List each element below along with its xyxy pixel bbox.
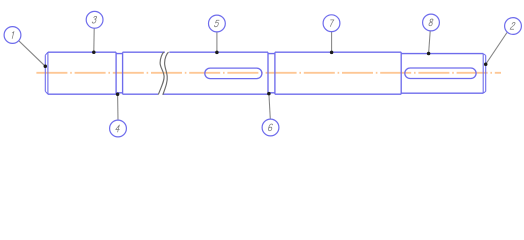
step shoulder C/D [400, 52, 402, 94]
keyway slot 2 [405, 68, 476, 79]
right chamfer diagonals [483, 54, 486, 94]
leader line 2 [486, 33, 507, 65]
shaft segment D outline (right end) [401, 54, 486, 94]
balloon 4 [110, 120, 127, 137]
left chamfer line [47, 52, 49, 94]
break line right curve [163, 52, 169, 95]
shaft segment C outline [275, 52, 401, 94]
left chamfer diagonals [45, 52, 48, 94]
leader line 8 [429, 31, 431, 54]
leader dot 3 [92, 50, 96, 54]
leader line 1 [19, 41, 46, 67]
leader dot 4 [116, 92, 120, 96]
break line left curve [158, 52, 164, 95]
right end face [485, 55, 487, 91]
balloon 7 [323, 15, 340, 32]
balloon 8 [423, 14, 440, 31]
leader dot 8 [427, 52, 431, 56]
right chamfer line [482, 54, 484, 94]
leader dot 6 [267, 92, 271, 96]
leader line 6 [269, 94, 270, 120]
leader dot 1 [44, 65, 48, 69]
leader line 7 [331, 32, 333, 53]
shaft segment A outline (left journal) [45, 52, 116, 94]
relief groove 1 [116, 52, 123, 94]
keyway slot 1 [205, 68, 262, 79]
leader dot 7 [330, 51, 334, 55]
leader line 3 [93, 28, 95, 52]
balloon 1 [4, 27, 21, 44]
balloon 2 [505, 18, 522, 35]
balloon 6 [262, 119, 279, 136]
leader dot 2 [484, 63, 488, 67]
leader line 4 [117, 94, 119, 120]
balloon 5 [209, 15, 226, 32]
balloon 3 [86, 11, 103, 28]
left end face [44, 55, 46, 91]
leader dot 5 [215, 51, 219, 55]
shaft segment B outline (with break) [123, 52, 268, 94]
relief groove 2 [268, 52, 275, 94]
leader line 5 [216, 32, 218, 53]
centerline (shaft axis) [36, 72, 501, 74]
